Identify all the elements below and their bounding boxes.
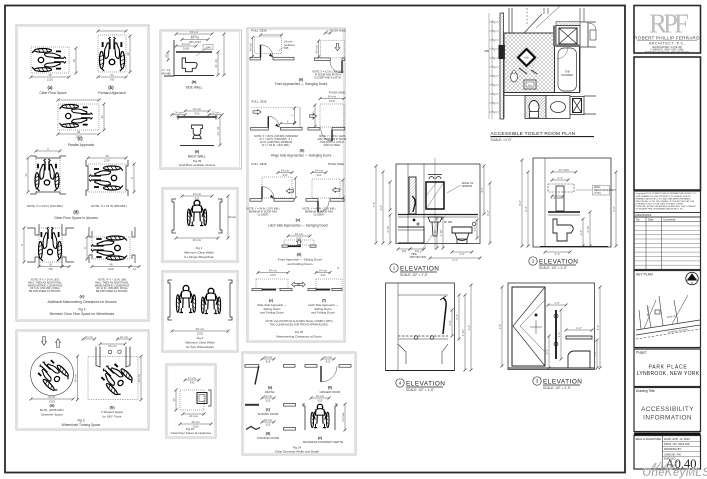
svg-text:DRAWING BY:: DRAWING BY: xyxy=(664,447,682,451)
svg-text:30: 30 xyxy=(100,115,104,119)
svg-text:1040: 1040 xyxy=(205,47,211,50)
title block logo box RPF xyxy=(634,6,701,54)
svg-text:1'-0": 1'-0" xyxy=(554,301,560,305)
svg-text:6'-2": 6'-2" xyxy=(467,325,471,331)
svg-text:PULL SIDE: PULL SIDE xyxy=(251,162,266,166)
svg-text:60-IN. (1525-MM.): 60-IN. (1525-MM.) xyxy=(40,408,65,412)
svg-text:SEAL & SIGNATURE: SEAL & SIGNATURE xyxy=(636,437,662,441)
svg-text:ELEPHONE: (516) 599-1799 FA: ELEPHONE: (516) 599-1799 FAX: (516) 599-… xyxy=(645,50,689,53)
svg-text:KEY PLAN: KEY PLAN xyxy=(636,273,653,277)
svg-text:Y: Y xyxy=(291,187,295,189)
svg-text:2'-2": 2'-2" xyxy=(576,326,582,330)
Fig 24 caption xyxy=(275,446,320,454)
svg-text:60 min: 60 min xyxy=(196,327,205,331)
svg-text:(TYP.): (TYP.) xyxy=(594,192,601,195)
svg-text:Clear Doorway Width and Depth: Clear Doorway Width and Depth xyxy=(275,450,320,454)
svg-text:39 - 41: 39 - 41 xyxy=(191,35,200,39)
svg-text:NOTE: ALL DOORS IN ALCOVES SHA: NOTE: ALL DOORS IN ALCOVES SHALL COMPLY … xyxy=(265,319,332,323)
svg-text:Clear Floor Space at Lavatorie: Clear Floor Space at Lavatories xyxy=(171,431,212,435)
figure box Fig 3 Wheelchair Turning Space xyxy=(16,330,149,430)
svg-text:SHOWER: SHOWER xyxy=(561,73,573,77)
svg-text:17 - 19: 17 - 19 xyxy=(162,68,171,72)
svg-text:PULL SIDE: PULL SIDE xyxy=(251,29,266,33)
elevation 4 label xyxy=(396,379,446,392)
svg-text:48: 48 xyxy=(77,130,81,134)
svg-text:X: X xyxy=(130,177,134,179)
svg-text:Copyright@2016, ROBERT PHILLIP: Copyright@2016, ROBERT PHILLIP FERRARO A… xyxy=(636,192,698,195)
svg-text:24 min: 24 min xyxy=(315,168,324,172)
title block key plan xyxy=(634,271,701,348)
svg-text:PUSH SIDE: PUSH SIDE xyxy=(328,162,344,166)
fig (b) side wall grab bar diagram xyxy=(161,30,225,90)
svg-text:1'-1": 1'-1" xyxy=(545,349,549,355)
svg-text:(e): (e) xyxy=(80,294,86,299)
svg-text:ACCESSIBLE TOILET ROOM PLAN: ACCESSIBLE TOILET ROOM PLAN xyxy=(491,131,576,137)
svg-text:No.: No. xyxy=(636,218,640,222)
svg-text:SLIDING DOOR: SLIDING DOOR xyxy=(257,412,278,416)
svg-text:(c): (c) xyxy=(296,218,301,222)
svg-text:IF Y = 54 IN. (1370 MM.).: IF Y = 54 IN. (1370 MM.). xyxy=(262,144,290,147)
svg-text:30: 30 xyxy=(49,262,53,266)
svg-text:2'-10": 2'-10" xyxy=(586,225,590,232)
svg-text:SCALE: 1/2" = 1'-0": SCALE: 1/2" = 1'-0" xyxy=(543,386,571,390)
fig (e) notes captions and Fig 4 title xyxy=(28,279,130,317)
elevation 2 label xyxy=(529,257,579,270)
svg-text:BACK WALL: BACK WALL xyxy=(188,155,206,159)
svg-text:OF ROBERT PHILLIP FERRARO ARCH: OF ROBERT PHILLIP FERRARO ARCHITECT, P.C… xyxy=(636,208,685,211)
svg-text:MIRROR: MIRROR xyxy=(462,185,472,188)
svg-text:INFORMATION: INFORMATION xyxy=(643,415,692,422)
fig24 (e) maximum doorway depth xyxy=(303,394,347,444)
svg-text:and Folding Doors: and Folding Doors xyxy=(287,262,313,266)
svg-text:12: 12 xyxy=(133,267,137,271)
svg-text:24 min: 24 min xyxy=(281,168,290,172)
svg-text:36 min: 36 min xyxy=(108,344,117,348)
svg-text:OneKeyMLS: OneKeyMLS xyxy=(642,467,707,479)
elevation 3 drawing xyxy=(498,283,602,370)
svg-text:NOTE: X ≤ 15 IN (380 MM.): NOTE: X ≤ 15 IN (380 MM.) xyxy=(91,204,127,208)
svg-text:1065: 1065 xyxy=(183,46,190,50)
svg-text:PUSH SIDE: PUSH SIDE xyxy=(330,29,346,33)
svg-text:Wheelchair Turning Space: Wheelchair Turning Space xyxy=(62,423,101,427)
svg-text:Fig 4: Fig 4 xyxy=(78,308,85,312)
fig (a) back wall grab bar diagram xyxy=(171,107,224,167)
svg-text:6'-8": 6'-8" xyxy=(498,324,502,330)
svg-text:610: 610 xyxy=(321,273,326,277)
svg-text:Additional Maneuvering Clearan: Additional Maneuvering Clearances for Al… xyxy=(47,300,116,304)
figure box Fig 25 Maneuvering Clearances at Doors xyxy=(247,28,345,342)
svg-text:8'-0": 8'-0" xyxy=(518,200,522,206)
svg-text:Front Approaches — Swinging Do: Front Approaches — Swinging Doors xyxy=(275,82,328,86)
svg-text:1'-6": 1'-6" xyxy=(459,252,465,256)
svg-text:19 max: 19 max xyxy=(189,414,199,418)
svg-text:1'-5": 1'-5" xyxy=(473,226,477,232)
svg-text:PARK PLACE: PARK PLACE xyxy=(648,365,687,371)
svg-text:12 min: 12 min xyxy=(85,335,94,339)
fig (e) additional maneuvering clearance right xyxy=(83,227,141,271)
(a) caption front approaches swinging doors xyxy=(275,78,328,87)
svg-text:Forward Approach: Forward Approach xyxy=(98,91,126,95)
svg-text:CLOSER AND A LATCH.: CLOSER AND A LATCH. xyxy=(314,77,342,80)
watermark OneKeyMLS xyxy=(642,460,707,479)
svg-text:30: 30 xyxy=(72,59,76,63)
svg-text:2'-10": 2'-10" xyxy=(433,229,437,236)
svg-text:815: 815 xyxy=(326,359,331,363)
svg-text:32 min: 32 min xyxy=(193,192,202,196)
svg-text:Parallel Approach: Parallel Approach xyxy=(68,143,95,147)
svg-text:60 min: 60 min xyxy=(73,373,77,382)
fig (d) clear floor space in alcoves left xyxy=(24,147,66,194)
svg-text:Drawing Title:: Drawing Title: xyxy=(636,389,655,393)
svg-text:32 min: 32 min xyxy=(264,394,273,398)
svg-text:1'-10": 1'-10" xyxy=(439,229,443,236)
svg-text:305: 305 xyxy=(213,115,218,119)
(b) caption hinge side approaches xyxy=(271,149,332,158)
svg-text:CLOSER.: CLOSER. xyxy=(314,214,325,217)
svg-text:(d): (d) xyxy=(297,253,303,257)
svg-text:T-Shaped Space: T-Shaped Space xyxy=(101,410,124,414)
svg-text:SPECIFICALLY FOR THE OWNER OF: SPECIFICALLY FOR THE OWNER OF THE PROJEC… xyxy=(636,200,695,203)
svg-text:(a): (a) xyxy=(299,78,304,82)
svg-text:48: 48 xyxy=(48,73,52,77)
svg-text:Date: Date xyxy=(648,218,654,222)
svg-text:32 min: 32 min xyxy=(295,232,304,236)
svg-text:(c): (c) xyxy=(77,136,83,141)
svg-text:48: 48 xyxy=(105,154,109,158)
svg-text:(b): (b) xyxy=(108,85,114,90)
svg-text:(d): (d) xyxy=(266,432,271,436)
elevation 1 drawing xyxy=(372,158,492,262)
svg-text:48: 48 xyxy=(126,52,130,56)
svg-text:X: X xyxy=(287,119,289,123)
(d) front approach sliding doors diagram xyxy=(278,232,323,266)
svg-text:RPF: RPF xyxy=(649,9,689,39)
svg-text:815: 815 xyxy=(266,398,271,402)
svg-text:1370: 1370 xyxy=(270,273,277,277)
svg-text:54 min: 54 min xyxy=(190,30,199,34)
svg-text:ELEVATION: ELEVATION xyxy=(406,381,445,388)
svg-text:30: 30 xyxy=(110,73,114,77)
svg-text:1'-6" MAX.: 1'-6" MAX. xyxy=(551,196,564,200)
svg-text:2'-4": 2'-4" xyxy=(455,314,459,320)
fig (d) clear floor space in alcoves right xyxy=(86,154,136,196)
(b) hinge side pull side door diagram xyxy=(251,100,302,148)
fig (c) parallel approach wheelchair plan xyxy=(57,99,106,148)
svg-text:ARCHITECT, P.C.: ARCHITECT, P.C. xyxy=(649,42,685,46)
elevation 3 label xyxy=(533,377,583,390)
svg-text:32 min: 32 min xyxy=(324,355,333,359)
svg-text:815: 815 xyxy=(266,359,271,363)
svg-text:6'-2": 6'-2" xyxy=(486,210,490,216)
title block drawing title xyxy=(634,388,701,432)
(c) caption latch side approaches xyxy=(268,218,328,228)
svg-text:30: 30 xyxy=(172,398,176,402)
svg-text:915: 915 xyxy=(195,111,200,115)
figure box Fig 32 Clear Floor Space at Lavatories xyxy=(166,364,216,438)
svg-text:X: X xyxy=(20,244,24,246)
svg-text:Project:: Project: xyxy=(636,351,647,355)
svg-text:Diameter Space: Diameter Space xyxy=(41,413,63,417)
svg-text:BE PROVIDED AS SHOWN.: BE PROVIDED AS SHOWN. xyxy=(96,290,128,293)
svg-text:CLOSER.: CLOSER. xyxy=(258,214,269,217)
svg-text:24 min: 24 min xyxy=(319,268,328,272)
elevation 4 drawing xyxy=(386,283,473,372)
svg-text:SCALE: 1/2" = 1'-0": SCALE: 1/2" = 1'-0" xyxy=(539,266,567,270)
svg-text:48 min: 48 min xyxy=(191,420,200,424)
svg-text:4'-1": 4'-1" xyxy=(452,258,458,262)
svg-text:6'-2": 6'-2" xyxy=(612,206,616,212)
svg-text:42 min: 42 min xyxy=(182,42,191,46)
figure box Fig 1 Minimum Clear Width Single Wheelchair xyxy=(162,188,238,262)
svg-text:BE PROVIDED AS SHOWN.: BE PROVIDED AS SHOWN. xyxy=(29,290,61,293)
svg-text:610: 610 xyxy=(317,173,322,177)
figure box Fig 29 Grab Bars at Water Closets xyxy=(160,30,242,169)
elevation 2 drawing xyxy=(518,158,618,256)
svg-text:12 min: 12 min xyxy=(211,111,220,115)
Fig 25 note and caption xyxy=(265,319,332,339)
svg-text:X: X xyxy=(337,266,339,270)
title block project name xyxy=(634,349,701,387)
svg-text:60 min: 60 min xyxy=(248,42,252,51)
svg-text:(a): (a) xyxy=(195,150,200,154)
svg-text:54 min: 54 min xyxy=(269,268,278,272)
svg-text:PROJ. NO. 2016-018: PROJ. NO. 2016-018 xyxy=(664,442,690,446)
svg-text:Fig 2: Fig 2 xyxy=(197,336,204,340)
svg-text:PURPOSE, EXCEPT AS AGREED IN W: PURPOSE, EXCEPT AS AGREED IN WRITING, TH… xyxy=(636,205,697,208)
svg-text:32 min: 32 min xyxy=(264,355,273,359)
title block seal box xyxy=(634,57,701,190)
svg-text:60 IN.: 60 IN. xyxy=(48,395,56,399)
svg-text:24 max: 24 max xyxy=(228,217,236,219)
svg-text:ELEVATION: ELEVATION xyxy=(539,259,578,266)
fig24 (b) hinged door xyxy=(305,355,351,394)
svg-text:(b): (b) xyxy=(109,405,115,410)
svg-text:Y: Y xyxy=(290,114,294,116)
svg-text:36 min: 36 min xyxy=(193,107,202,111)
svg-text:815: 815 xyxy=(266,422,271,426)
svg-text:Fig 1: Fig 1 xyxy=(196,246,203,250)
(b) hinge side push side door diagram xyxy=(308,91,347,148)
svg-text:X: X xyxy=(83,247,87,249)
fig (d) notes and caption xyxy=(27,204,127,220)
svg-text:430-485: 430-485 xyxy=(161,72,171,76)
svg-text:30: 30 xyxy=(24,173,28,177)
svg-text:60 min: 60 min xyxy=(137,373,141,382)
svg-text:for Two Wheelchairs: for Two Wheelchairs xyxy=(186,345,214,349)
svg-text:Minimum Clear Width: Minimum Clear Width xyxy=(185,341,215,345)
(a) front approach push side door diagram xyxy=(312,29,346,80)
svg-text:REVISIONS: REVISIONS xyxy=(636,213,652,217)
svg-text:4'-2": 4'-2" xyxy=(555,252,561,256)
svg-text:24 max: 24 max xyxy=(341,412,345,422)
svg-text:MAXIMUM DOORWAY DEPTH: MAXIMUM DOORWAY DEPTH xyxy=(303,440,343,444)
svg-text:SCALE: 1/2" = 1'-0": SCALE: 1/2" = 1'-0" xyxy=(400,273,428,277)
svg-text:and Folding Doors: and Folding Doors xyxy=(260,311,284,315)
svg-text:610: 610 xyxy=(176,115,181,119)
svg-text:12 min: 12 min xyxy=(120,335,129,339)
svg-text:PULL SIDE: PULL SIDE xyxy=(251,100,266,104)
(a) front approach pull side door diagram xyxy=(248,29,295,60)
svg-text:33 - 36: 33 - 36 xyxy=(216,126,220,135)
svg-text:LYNBROOK, NEW YORK: LYNBROOK, NEW YORK xyxy=(637,371,700,377)
figure box Fig 2 Minimum Clear Width Two Wheelchairs xyxy=(162,271,238,352)
svg-text:2'-6": 2'-6" xyxy=(579,230,583,236)
svg-text:1525: 1525 xyxy=(197,331,204,335)
(e) slide side approach diagram xyxy=(252,268,298,314)
(c) latch side push side door diagram xyxy=(303,162,345,217)
svg-text:12: 12 xyxy=(164,54,168,58)
title block copyright and revisions table xyxy=(634,191,701,270)
svg-text:760: 760 xyxy=(110,77,115,81)
svg-text:(d): (d) xyxy=(73,210,79,215)
svg-text:(a): (a) xyxy=(47,85,53,90)
svg-text:32 min: 32 min xyxy=(316,394,325,398)
svg-text:18" MIN: 18" MIN xyxy=(444,221,453,224)
svg-text:FOLDING DOOR: FOLDING DOOR xyxy=(257,436,279,440)
svg-text:NOTE: X ≤ 24 IN. (610 MM.): NOTE: X ≤ 24 IN. (610 MM.) xyxy=(27,204,63,208)
figure box Fig 4 Minimum Clear Floor Space for Wheelchairs xyxy=(16,25,149,321)
fig (b) forward approach wheelchair plan xyxy=(97,30,132,96)
Fig 3 caption xyxy=(62,419,101,428)
svg-text:ELEVATION: ELEVATION xyxy=(543,379,582,386)
svg-text:Grab Bars at Water Closets: Grab Bars at Water Closets xyxy=(179,163,216,167)
fig (b) T-shaped turning space xyxy=(73,335,142,419)
svg-text:610: 610 xyxy=(283,173,288,177)
fig (a) clear floor space wheelchair plan xyxy=(30,47,78,96)
svg-text:W.D: W.D xyxy=(528,85,533,87)
fig (a) 60-in diameter turning space xyxy=(30,337,75,417)
svg-text:URN: URN xyxy=(484,50,489,53)
svg-text:CHKD BY: PK: CHKD BY: PK xyxy=(664,453,681,457)
svg-text:and Folding Doors: and Folding Doors xyxy=(311,311,335,315)
svg-text:42" MIN.: 42" MIN. xyxy=(559,168,570,172)
svg-text:Minimum Clear Floor Space for: Minimum Clear Floor Space for Wheelchair… xyxy=(50,312,115,316)
elevation 1 label xyxy=(390,264,440,277)
svg-text:760: 760 xyxy=(48,267,53,271)
svg-text:ROBERT PHILLIP FERRARO: ROBERT PHILLIP FERRARO xyxy=(634,36,700,41)
svg-text:N: N xyxy=(691,281,693,285)
svg-text:36 min: 36 min xyxy=(193,238,202,242)
fig24 (a) detail door open xyxy=(245,355,295,394)
svg-text:815: 815 xyxy=(318,398,323,402)
svg-text:1'-4": 1'-4" xyxy=(557,332,561,338)
svg-text:54 min: 54 min xyxy=(328,94,337,98)
svg-text:(a): (a) xyxy=(50,403,56,408)
svg-text:SCALE: 1/2" = 1'-0": SCALE: 1/2" = 1'-0" xyxy=(406,388,434,392)
svg-text:Maneuvering Clearance at Doors: Maneuvering Clearance at Doors xyxy=(276,335,322,339)
svg-text:Fig 3: Fig 3 xyxy=(77,419,84,423)
svg-text:455: 455 xyxy=(284,46,289,50)
svg-text:990-1040: 990-1040 xyxy=(189,40,201,44)
svg-text:48: 48 xyxy=(109,262,113,266)
svg-text:(b): (b) xyxy=(192,80,198,84)
svg-text:42 min: 42 min xyxy=(311,111,315,120)
svg-text:Fig 25: Fig 25 xyxy=(295,330,304,334)
svg-text:DATE: APR. 13, 2016: DATE: APR. 13, 2016 xyxy=(664,437,690,441)
svg-text:X: X xyxy=(327,29,329,33)
svg-text:Minimum Clear Width: Minimum Clear Width xyxy=(184,251,214,255)
svg-text:THE CLEARANCES FOR FRONT APPRO: THE CLEARANCES FOR FRONT APPROACHES. xyxy=(270,323,329,327)
svg-text:Clear Floor Space: Clear Floor Space xyxy=(39,91,66,95)
svg-text:48 min: 48 min xyxy=(314,44,318,53)
svg-text:4'-0": 4'-0" xyxy=(480,187,484,193)
svg-text:33 - 36: 33 - 36 xyxy=(214,59,218,68)
accessible toilet room plan xyxy=(484,6,596,119)
title block seal signature and drawing number xyxy=(634,433,701,472)
svg-text:815: 815 xyxy=(195,196,200,200)
svg-text:24 min: 24 min xyxy=(174,111,183,115)
svg-text:6'-4": 6'-4" xyxy=(379,205,383,211)
svg-text:2'-10": 2'-10" xyxy=(386,225,390,232)
svg-text:Hinge Side Approaches — Swingi: Hinge Side Approaches — Swinging Doors xyxy=(271,154,332,158)
figure box Fig 24 Clear Doorway Width and Depth xyxy=(242,352,356,455)
svg-text:6'-2": 6'-2" xyxy=(596,325,600,331)
svg-text:430: 430 xyxy=(190,380,195,384)
(f) latch side approach diagram xyxy=(299,266,342,315)
svg-text:7'-6": 7'-6" xyxy=(372,202,376,208)
svg-text:6'-4": 6'-4" xyxy=(524,206,528,212)
plan title ACCESSIBLE TOILET ROOM PLAN xyxy=(491,131,595,142)
svg-text:3'-3": 3'-3" xyxy=(557,176,563,180)
svg-text:1220: 1220 xyxy=(108,267,115,271)
svg-text:Comments: Comments xyxy=(663,218,676,222)
svg-text:SCALE: =1'-0": SCALE: =1'-0" xyxy=(491,138,513,142)
svg-text:ACCESSIBILITY: ACCESSIBILITY xyxy=(641,406,694,413)
svg-text:for Single Wheelchair: for Single Wheelchair xyxy=(184,255,213,259)
fig (e) additional maneuvering clearance left xyxy=(20,224,74,271)
svg-text:1220: 1220 xyxy=(104,158,111,162)
svg-text:2'-10": 2'-10" xyxy=(461,329,465,336)
svg-text:X: X xyxy=(47,147,49,151)
svg-text:PROTECTION: PROTECTION xyxy=(410,256,427,259)
svg-text:17 min: 17 min xyxy=(188,376,197,380)
svg-text:AND CLOSER.: AND CLOSER. xyxy=(324,144,341,147)
svg-text:(b): (b) xyxy=(328,386,333,390)
svg-text:(b): (b) xyxy=(300,149,306,153)
svg-text:ELEVATION: ELEVATION xyxy=(400,266,439,273)
svg-text:1'-4": 1'-4" xyxy=(593,351,597,357)
svg-text:32 min: 32 min xyxy=(264,418,273,422)
svg-text:1220: 1220 xyxy=(47,77,54,81)
svg-text:for 180° Turns: for 180° Turns xyxy=(103,415,122,419)
fig24 (d) folding door xyxy=(246,418,296,440)
(c) latch side pull side door diagram xyxy=(247,162,297,217)
svg-text:6x6: 6x6 xyxy=(524,56,529,60)
fig24 (c) sliding door xyxy=(245,394,296,416)
svg-text:Latch Side Approaches — Swingi: Latch Side Approaches — Swinging Doors xyxy=(268,224,328,228)
svg-text:1370: 1370 xyxy=(329,99,336,103)
svg-text:1'-8": 1'-8" xyxy=(448,320,452,326)
svg-text:SIDE WALL: SIDE WALL xyxy=(186,86,203,90)
svg-text:Clear Floor Space In Alcoves: Clear Floor Space In Alcoves xyxy=(54,216,98,220)
